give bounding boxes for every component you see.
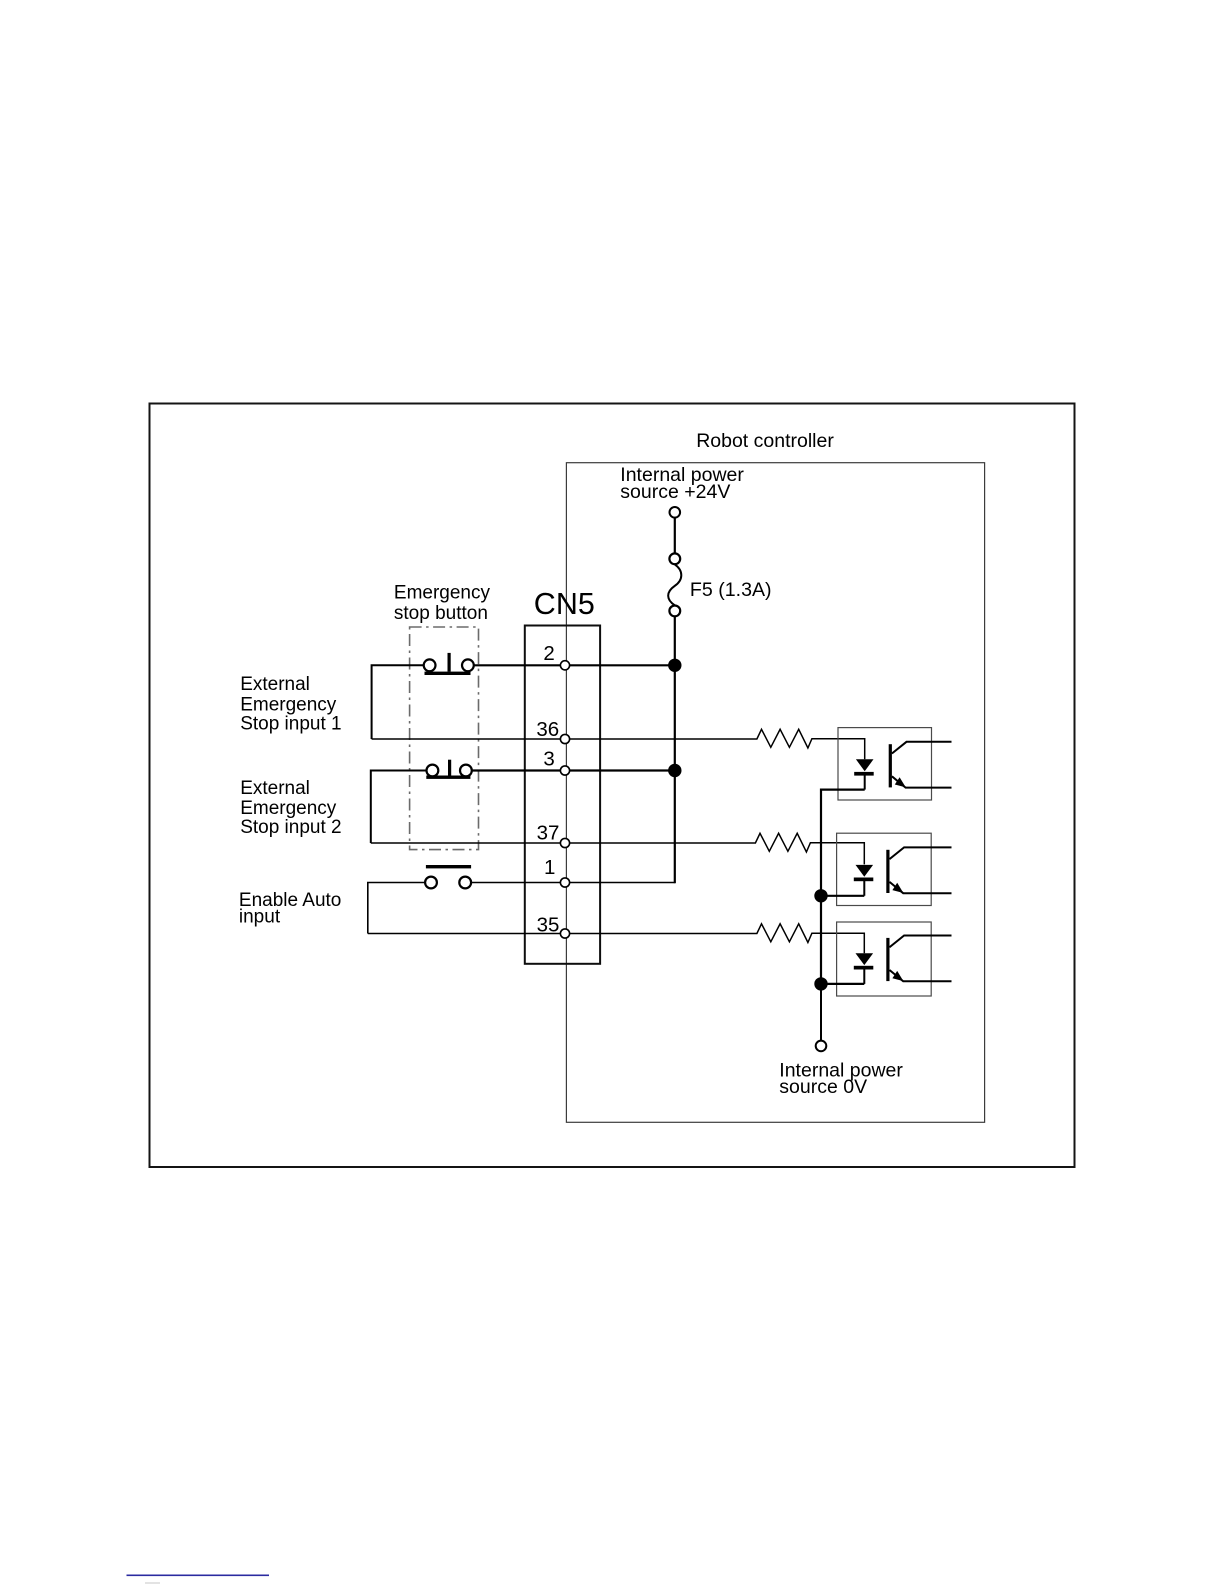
enable auto switch (NO contact) [425, 865, 471, 888]
pin 36 terminal [536, 718, 569, 744]
label: External Emergency Stop input 1 [240, 674, 341, 735]
label: Internal power source 0V [779, 1059, 903, 1098]
svg-text:2: 2 [543, 642, 554, 665]
LED D2 [854, 865, 874, 896]
pin 3 terminal [543, 747, 569, 775]
svg-text:stop button: stop button [394, 603, 488, 624]
svg-text:input: input [239, 907, 281, 928]
svg-text:37: 37 [537, 821, 560, 844]
svg-text:1: 1 [544, 856, 555, 879]
optocoupler PC1 package [838, 728, 932, 800]
wire: +24V terminal to fuse [674, 517, 676, 553]
svg-text:3: 3 [543, 747, 554, 770]
label: Emergency stop button [394, 582, 491, 624]
junction: 0V rail / LED2 [814, 889, 827, 902]
wire: LED1 cathode to 0V rail [821, 790, 865, 896]
svg-text:source +24V: source +24V [620, 481, 730, 503]
svg-text:Emergency: Emergency [240, 798, 337, 819]
phototransistor Q2 [886, 847, 951, 893]
junction: +24V rail / pin 2 [668, 659, 681, 672]
wire: pin 3 row (+24V loop 2) [371, 771, 675, 844]
svg-text:Emergency: Emergency [394, 582, 491, 603]
svg-text:Emergency: Emergency [240, 694, 337, 715]
LED D1 [854, 759, 874, 789]
emergency stop switch 1 (NC contact) [424, 653, 474, 675]
wire: pin 36 row with resistor lead [372, 729, 865, 759]
svg-text:CN5: CN5 [534, 587, 595, 621]
value label: F5 (1.3A) [690, 579, 772, 601]
pin 2 terminal [543, 642, 569, 670]
wire: pin 2 row (+24V loop top) [372, 665, 675, 739]
node: internal power source 0V terminal [816, 1041, 827, 1052]
svg-text:External: External [240, 778, 310, 799]
svg-text:source 0V: source 0V [779, 1076, 867, 1098]
emergency stop switch 2 (NC contact) [426, 760, 472, 779]
pin 37 terminal [537, 821, 570, 847]
svg-text:35: 35 [537, 913, 560, 936]
emergency stop button enclosure (dash-dot box) [410, 627, 479, 850]
robot controller enclosure box [566, 463, 984, 1123]
label: Internal power source +24V [620, 464, 744, 503]
junction: 0V rail / LED3 [814, 977, 827, 990]
fuse F5 [668, 553, 681, 616]
pin 1 terminal [544, 856, 570, 887]
label: CN5 [534, 587, 595, 621]
junction: +24V rail / pin 3 [668, 764, 681, 777]
phototransistor Q3 [886, 936, 951, 982]
optocoupler PC2 package [837, 833, 932, 905]
wire: pin 37 row with resistor lead [371, 833, 865, 864]
connector CN5 body [525, 626, 600, 964]
label: Enable Auto input [239, 890, 341, 928]
LED D3 [854, 953, 874, 984]
wire: pin 1 row (Enable Auto loop) [368, 883, 675, 934]
svg-text:Stop input 2: Stop input 2 [240, 817, 341, 838]
node: internal power source +24V terminal [670, 507, 681, 518]
label: Robot controller [696, 430, 834, 452]
phototransistor Q1 [889, 742, 952, 788]
svg-text:36: 36 [536, 718, 559, 741]
svg-text:Robot controller: Robot controller [696, 430, 834, 452]
footer rule (blue underline) [127, 1575, 270, 1584]
optocoupler PC3 package [837, 922, 932, 996]
svg-text:Stop input 1: Stop input 1 [240, 714, 341, 735]
wire: LED2 cathode to 0V rail [821, 896, 864, 984]
wire: LED3 cathode to 0V rail [821, 984, 864, 1041]
label: External Emergency Stop input 2 [240, 778, 341, 838]
wire: +24V rail from fuse down to pin1 row [674, 616, 676, 883]
svg-text:External: External [240, 674, 310, 695]
svg-text:F5 (1.3A): F5 (1.3A) [690, 579, 772, 601]
wire: pin 35 row with resistor lead [368, 924, 865, 953]
pin 35 terminal [537, 913, 570, 938]
